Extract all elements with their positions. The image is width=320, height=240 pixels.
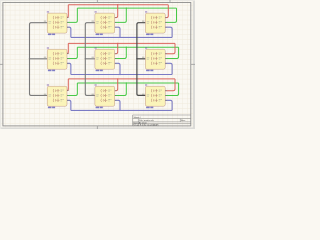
svg-text:Sheet: /: Sheet: /	[134, 116, 142, 119]
svg-text:Rev:: Rev:	[181, 120, 186, 122]
svg-text:Id: 1/1: Id: 1/1	[153, 125, 160, 127]
